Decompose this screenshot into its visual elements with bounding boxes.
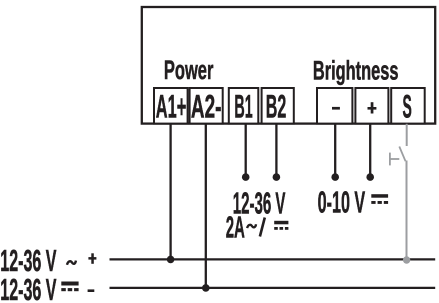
terminal S bbox=[391, 88, 425, 124]
svg-text:2A: 2A bbox=[226, 211, 245, 245]
terminal dot B1 bbox=[242, 173, 250, 181]
switch S1 actuator bbox=[390, 153, 399, 166]
DC symbol minus supply bbox=[61, 282, 78, 292]
svg-text:S: S bbox=[403, 88, 412, 124]
wire plus down bbox=[369, 124, 371, 175]
junction dot switch (gray) bbox=[403, 256, 410, 263]
plus sign supply bbox=[88, 253, 96, 263]
minus sign supply bbox=[88, 289, 95, 292]
svg-text:B1: B1 bbox=[234, 88, 252, 124]
wire minus down bbox=[334, 124, 336, 175]
terminal minus bbox=[317, 88, 352, 124]
terminal A1+ bbox=[154, 88, 188, 124]
plus supply line bbox=[110, 258, 436, 260]
svg-text:A2-: A2- bbox=[191, 88, 222, 124]
wire A1+ down bbox=[169, 124, 171, 260]
AC tilde symbol plus supply bbox=[67, 261, 76, 265]
switch S1 blade bbox=[399, 147, 405, 162]
terminal B2 bbox=[262, 88, 294, 124]
svg-text:A1+: A1+ bbox=[156, 88, 187, 124]
device outline U1 bbox=[142, 7, 435, 124]
terminal dot plus bbox=[366, 173, 374, 181]
wire A2- down bbox=[205, 124, 207, 288]
svg-text:B2: B2 bbox=[266, 88, 287, 124]
switch S1 wire down to plus supply line bbox=[406, 161, 408, 260]
svg-text:Power: Power bbox=[164, 55, 214, 85]
wire B2 down bbox=[275, 124, 277, 175]
junction dot A2- on minus supply line bbox=[202, 284, 210, 292]
minus supply line bbox=[110, 287, 436, 289]
DC symbol after slash bbox=[274, 221, 288, 230]
svg-text:12-36 V: 12-36 V bbox=[0, 273, 57, 303]
svg-text:Brightness: Brightness bbox=[313, 55, 399, 85]
AC tilde symbol after 2A bbox=[247, 224, 256, 228]
switch S1 (gray) wire from S terminal bbox=[406, 124, 408, 146]
terminal dot B2 bbox=[273, 173, 281, 181]
DC symbol after 0-10 V bbox=[371, 194, 388, 204]
junction dot A1+ on plus supply line bbox=[167, 256, 175, 264]
wire B1 down bbox=[245, 124, 247, 175]
slash between AC and DC bbox=[260, 218, 265, 237]
svg-text:0-10 V: 0-10 V bbox=[318, 186, 366, 220]
terminal plus bbox=[355, 88, 388, 124]
terminal dot minus bbox=[331, 173, 339, 181]
terminal A2- bbox=[190, 88, 223, 124]
terminal B1 bbox=[229, 88, 258, 124]
